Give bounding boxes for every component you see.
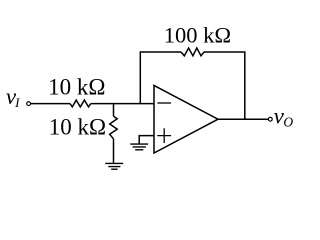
svg-text:vI: vI bbox=[6, 84, 20, 110]
svg-text:10 kΩ: 10 kΩ bbox=[48, 75, 105, 100]
ground G1 bbox=[105, 163, 123, 169]
resistor R3 100k feedback zigzag bbox=[181, 48, 204, 56]
wire R2 top lead bbox=[113, 104, 115, 117]
wire output bbox=[218, 118, 268, 120]
resistor R1 10k series zigzag bbox=[70, 100, 91, 107]
ground G2 bbox=[130, 144, 148, 150]
svg-text:100 kΩ: 100 kΩ bbox=[164, 22, 231, 47]
svg-text:vO: vO bbox=[274, 104, 294, 130]
op-amp plus input symbol bbox=[157, 128, 171, 143]
wire to op-amp bbox=[91, 103, 154, 105]
wire plus input to ground bbox=[139, 136, 154, 144]
svg-text:10 kΩ: 10 kΩ bbox=[49, 114, 106, 139]
wire feedback left (vertical + top-left run) bbox=[140, 52, 181, 104]
op-amp U1 triangle bbox=[154, 85, 218, 153]
op-amp minus input symbol bbox=[157, 102, 171, 104]
wire R2 bottom lead bbox=[113, 139, 115, 163]
node vI terminal bbox=[27, 102, 31, 106]
wire input bbox=[31, 103, 70, 105]
node vO terminal bbox=[268, 117, 272, 121]
wire feedback right (top-right run + vertical) bbox=[204, 52, 245, 119]
resistor R2 10k shunt zigzag bbox=[110, 116, 118, 139]
